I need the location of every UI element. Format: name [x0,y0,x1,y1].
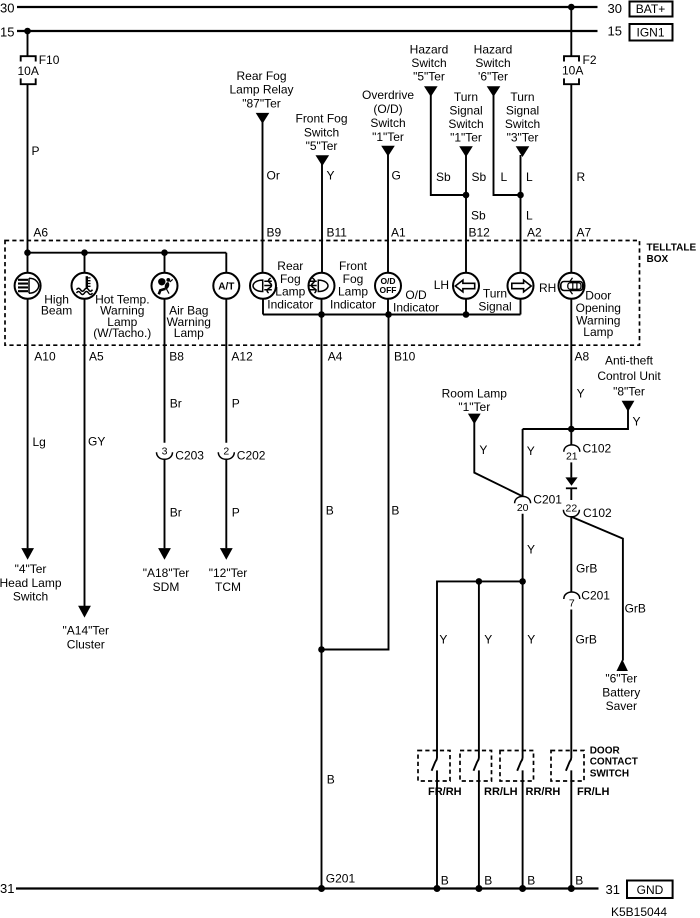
lamp RH turn signal [508,273,557,299]
svg-text:B9: B9 [267,226,282,240]
door contact switch FR/RH blade [428,758,462,889]
wire A/T to A12 [226,299,253,443]
junction hot-temp/bus [81,249,88,256]
svg-text:Turn: Turn [454,90,478,104]
svg-text:RR/LH: RR/LH [484,786,518,798]
svg-text:FR/RH: FR/RH [428,786,462,798]
connector 3 C203 [157,445,205,462]
joint pin symbol [565,477,577,500]
fuse F10 [18,31,60,84]
svg-text:B11: B11 [327,226,348,240]
svg-text:Switch: Switch [370,116,405,130]
svg-text:Sb: Sb [436,170,451,184]
wire bus to high beam lamp [27,253,29,273]
svg-text:C102: C102 [583,442,612,456]
svg-text:GrB: GrB [625,602,646,616]
svg-text:OFF: OFF [380,285,397,295]
svg-text:B: B [527,874,535,888]
svg-text:B: B [575,874,583,888]
wire Or (B9) [263,122,282,273]
svg-text:F10: F10 [39,53,60,67]
wire G (A1) [388,155,406,273]
SDM destination arrow [143,548,190,594]
svg-text:Switch: Switch [304,126,339,140]
svg-text:A8: A8 [575,350,590,364]
junction A8/anti-theft/branch [568,426,575,433]
fuse F2 [562,7,597,84]
lamp door opening warning [559,273,621,339]
svg-text:Indicator: Indicator [330,298,376,312]
svg-text:Hazard: Hazard [474,43,513,57]
door contact switch RR/RH blade [517,758,560,889]
svg-text:Control Unit: Control Unit [597,369,661,383]
telltale box (dashed) [5,241,640,346]
door contact switch box RR/LH [460,751,492,782]
svg-text:3: 3 [162,445,168,457]
svg-text:C201: C201 [581,589,610,603]
wire hot temp to A5 [85,299,106,606]
connector 22 C102 [563,502,612,520]
wire air bag to B8 [165,299,185,443]
svg-text:GrB: GrB [576,633,597,647]
svg-text:Fog: Fog [343,272,364,286]
svg-text:SDM: SDM [153,580,180,594]
svg-text:A/T: A/T [218,282,234,293]
svg-text:Signal: Signal [449,104,482,118]
svg-text:Beam: Beam [41,304,72,318]
wire Y from anti-theft to A8 junction [523,410,641,429]
svg-text:FR/LH: FR/LH [577,786,609,798]
wire Br to SDM [165,460,182,549]
svg-text:"12"Ter: "12"Ter [209,566,248,580]
battery saver destination arrow [602,659,640,713]
svg-text:A4: A4 [328,350,343,364]
junction on line 30 for F2 [568,4,575,11]
junction hazard6/turn3 [517,192,524,199]
svg-text:"3"Ter: "3"Ter [507,131,539,145]
svg-text:Y: Y [527,543,535,557]
svg-text:CONTACT: CONTACT [590,757,638,768]
svg-text:RR/RH: RR/RH [526,786,561,798]
svg-text:B: B [326,504,334,518]
svg-text:Front: Front [339,259,368,273]
svg-text:2: 2 [223,445,229,457]
svg-text:B: B [484,874,492,888]
wire GrB from 7 C201 to door switch FR/LH [571,610,597,758]
svg-text:Turn: Turn [510,90,534,104]
svg-text:Saver: Saver [606,699,637,713]
wire Y to door switch RR/RH [523,581,536,757]
svg-text:Y: Y [479,443,487,457]
svg-text:DOOR: DOOR [590,746,621,757]
junction B wire RR/LH to ground [475,874,492,893]
svg-text:A7: A7 [577,226,592,240]
lower bus to door switches [437,581,523,757]
svg-text:"5"Ter: "5"Ter [306,139,338,153]
top bus inside box [28,252,227,254]
lamp LH turn signal [434,273,512,314]
wire A8 (Y) from door lamp [571,299,589,445]
wire bus to air bag lamp [164,253,166,273]
lamp O/D indicator [375,273,439,315]
svg-text:"87"Ter: "87"Ter [242,97,281,111]
svg-text:31: 31 [606,882,620,897]
wire GrB from 22 C102 down [571,517,597,592]
svg-text:A12: A12 [231,350,253,364]
svg-text:Y: Y [527,633,535,647]
svg-text:P: P [32,144,40,158]
svg-text:10A: 10A [562,64,583,78]
svg-text:"A18"Ter: "A18"Ter [143,566,190,580]
junction on line 15 for F10 [24,28,31,35]
wire line 30 (BAT+) [17,6,598,8]
svg-text:"1"Ter: "1"Ter [372,130,404,144]
TELLTALE BOX label [647,243,697,266]
svg-text:"6"Ter: "6"Ter [605,672,637,686]
svg-text:Y: Y [527,444,535,458]
lamp high beam [15,273,73,318]
svg-text:C102: C102 [583,506,612,520]
junction hazard5/turn1 [463,192,470,199]
wire B10 (B) joining A4 [322,315,416,650]
connector 7 C201 [564,589,611,610]
svg-text:Fog: Fog [280,272,301,286]
connector 20 C201 [515,493,563,514]
bottom bus inside box [263,314,521,316]
svg-text:Signal: Signal [506,104,539,118]
svg-text:Lg: Lg [33,435,46,449]
junction bus/522 wire [519,578,526,585]
room lamp 1 terminal (source) [442,386,508,424]
svg-text:Y: Y [439,633,447,647]
junction bus/479 wire [476,578,483,585]
junction airbag/bus [161,249,168,256]
svg-text:Overdrive: Overdrive [362,88,414,102]
junction B wire FR/LH to ground [568,874,583,893]
turn signal switch 3 terminal (source) [505,90,540,157]
wire Y (B11) [322,164,347,273]
svg-text:10A: 10A [18,64,39,78]
svg-text:SWITCH: SWITCH [590,769,629,780]
svg-text:20: 20 [517,502,529,514]
lamp rear fog indicator [250,259,313,312]
svg-text:Hazard: Hazard [410,43,449,57]
svg-text:Battery: Battery [602,685,640,699]
svg-text:L: L [501,170,508,184]
svg-text:Switch: Switch [475,56,510,70]
junction B wire RR/RH to ground [519,874,535,893]
wire 21 C102 to joint pin [570,462,572,477]
wire bus to A/T lamp [225,253,227,273]
svg-text:B12: B12 [469,226,491,240]
svg-text:(W/Tacho.): (W/Tacho.) [93,326,151,340]
junction B10 drop [385,311,392,318]
connector 21 C102 [564,442,612,463]
head lamp switch destination arrow [0,548,62,603]
wire Y from 20 C201 to lower bus [523,514,535,582]
svg-text:15: 15 [608,24,622,39]
svg-text:(O/D): (O/D) [373,102,402,116]
front fog switch 5 terminal (source) [295,112,347,167]
wire line 31 (ground bus) [0,881,620,897]
wire R from F2 to A7 [571,84,591,273]
wire high beam to A10 [28,299,56,549]
hazard switch 6 terminal (source) [474,43,513,97]
svg-text:Head Lamp: Head Lamp [0,576,62,590]
svg-text:GrB: GrB [576,562,597,576]
wire O/D to bottom bus [387,299,389,315]
svg-text:B: B [391,504,399,518]
svg-text:L: L [526,170,533,184]
svg-text:B10: B10 [394,350,416,364]
svg-text:C201: C201 [533,493,562,507]
wire Y to door switch RR/LH [479,581,492,757]
svg-text:Sb: Sb [472,170,487,184]
overdrive O/D switch 1 terminal (source) [362,88,414,156]
svg-text:P: P [232,506,240,520]
svg-text:L: L [526,209,533,223]
lamp hot temperature warning [72,273,152,340]
wire P from F10 to A6 [28,84,49,253]
svg-text:21: 21 [566,450,578,462]
wire Y branch down to 20 C201 [523,429,535,496]
svg-text:Sb: Sb [471,209,486,223]
svg-text:Lamp: Lamp [583,325,613,339]
svg-text:Switch: Switch [13,590,48,604]
wire P to TCM [226,460,239,549]
svg-text:G: G [392,169,401,183]
svg-text:A6: A6 [33,226,48,240]
svg-text:BAT+: BAT+ [636,2,665,16]
BAT+ box [630,2,673,17]
svg-text:RH: RH [539,281,556,295]
wire Sb (B12) [466,155,490,273]
DOOR CONTACT SWITCH label [590,746,638,780]
anti-theft control unit 8 terminal (source) [597,354,661,412]
svg-text:Rear: Rear [277,259,303,273]
svg-text:Indicator: Indicator [393,301,439,315]
door contact switch box RR/RH [500,751,534,782]
svg-text:"1"Ter: "1"Ter [458,400,490,414]
svg-text:P: P [232,397,240,411]
svg-text:IGN1: IGN1 [636,26,664,40]
door contact switch box FR/LH [551,751,584,782]
hazard switch 5 terminal (source) [410,43,449,97]
svg-text:B: B [441,874,449,888]
svg-text:A10: A10 [34,350,56,364]
svg-text:30: 30 [608,1,622,16]
svg-text:BOX: BOX [647,254,669,265]
svg-text:Br: Br [170,506,182,520]
wire Sb from hazard switch 5 [431,95,466,195]
svg-text:Y: Y [327,169,335,183]
junction LH/bus [463,311,470,318]
connector 2 C202 [218,445,266,462]
lamp front fog indicator [309,259,377,312]
wire L (A2) [521,155,543,273]
svg-text:B: B [327,773,335,787]
svg-text:"4"Ter: "4"Ter [15,562,47,576]
junction A4 drop [318,311,325,318]
turn signal switch 1 terminal (source) [448,90,483,157]
cluster destination arrow [63,606,110,652]
svg-text:7: 7 [569,598,575,610]
lamp air bag warning [152,273,211,340]
wire L from hazard switch 6 [494,95,521,195]
wire rear fog to bottom bus [262,299,264,315]
svg-text:Y: Y [577,387,585,401]
wire A4 (B) to G201 [322,315,343,889]
svg-text:Lamp: Lamp [338,285,368,299]
door contact switch FR/LH blade [566,758,610,889]
GND box [627,881,673,899]
svg-text:Anti-theft: Anti-theft [605,354,654,368]
door contact switch box FR/RH [418,751,450,782]
svg-text:B8: B8 [169,350,184,364]
svg-text:Y: Y [484,633,492,647]
svg-text:A5: A5 [89,350,104,364]
svg-text:Lamp: Lamp [275,285,305,299]
svg-text:Cluster: Cluster [67,638,105,652]
svg-text:30: 30 [0,1,14,16]
wire RH to bottom bus [520,299,522,315]
svg-text:GY: GY [88,435,105,449]
junction B wire FR/RH to ground [434,874,449,893]
svg-text:'6"Ter: '6"Ter [478,70,508,84]
svg-text:A1: A1 [391,226,406,240]
svg-text:Lamp: Lamp [174,326,204,340]
wire Y from room lamp to 20 C201 [474,423,522,497]
wire GrB from 22 C102 to battery saver [571,517,646,661]
svg-text:TELLTALE: TELLTALE [647,243,697,254]
svg-text:R: R [577,170,586,184]
TCM destination arrow [209,548,248,594]
svg-text:GND: GND [637,883,664,897]
svg-text:Rear Fog: Rear Fog [236,69,286,83]
svg-text:TCM: TCM [215,580,241,594]
wire line 15 (IGN1) [17,30,598,32]
svg-text:Switch: Switch [505,117,540,131]
svg-text:Signal: Signal [478,299,511,313]
svg-text:Y: Y [633,415,641,429]
door contact switch RR/LH blade [474,758,518,889]
svg-text:Switch: Switch [448,117,483,131]
svg-text:Br: Br [170,397,182,411]
wire LH to bottom bus [465,299,467,315]
svg-text:"A14"Ter: "A14"Ter [63,624,110,638]
svg-text:15: 15 [0,25,14,40]
svg-text:Switch: Switch [411,56,446,70]
ground G201 [318,872,355,893]
wire front fog to bottom bus [321,299,323,315]
svg-text:Room Lamp: Room Lamp [442,386,508,400]
svg-text:"8"Ter: "8"Ter [613,385,645,399]
IGN1 box [630,24,673,41]
lamp A/T [213,273,239,299]
svg-text:G201: G201 [326,872,356,886]
svg-text:K5B15044: K5B15044 [611,905,667,918]
svg-text:Indicator: Indicator [267,298,313,312]
svg-text:22: 22 [566,502,578,514]
wire bus to hot temp lamp [84,253,86,273]
svg-text:F2: F2 [583,53,597,67]
svg-text:31: 31 [0,881,14,896]
svg-text:LH: LH [434,278,449,292]
svg-text:C202: C202 [237,449,266,463]
svg-text:"1"Ter: "1"Ter [450,131,482,145]
junction A6/bus [24,249,31,256]
junction B10/A4 [318,646,325,653]
svg-text:Front Fog: Front Fog [295,112,347,126]
svg-text:Lamp Relay: Lamp Relay [229,83,293,97]
svg-text:A2: A2 [527,226,542,240]
svg-text:C203: C203 [175,449,204,463]
rear fog lamp relay 87 terminal (source) [229,69,293,124]
svg-text:Or: Or [267,169,280,183]
svg-text:"5"Ter: "5"Ter [413,70,445,84]
